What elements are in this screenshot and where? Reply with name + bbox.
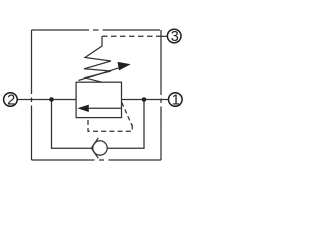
svg-text:2: 2 [7,93,15,109]
svg-text:3: 3 [171,29,179,45]
svg-text:1: 1 [172,93,180,109]
